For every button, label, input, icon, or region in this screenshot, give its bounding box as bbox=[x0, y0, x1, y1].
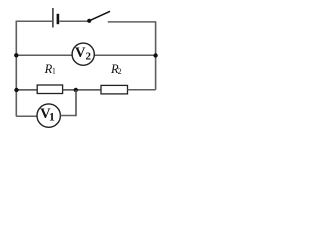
wire R row: left dot to R1 bbox=[17, 89, 38, 91]
wire switch fixed contact to top-right corner bbox=[108, 21, 156, 23]
node junction dot left of V2 row bbox=[14, 53, 18, 57]
node junction dot R row left bbox=[14, 88, 18, 92]
voltmeter V2 bbox=[72, 43, 94, 65]
resistor R2 bbox=[101, 85, 128, 94]
svg-text:1: 1 bbox=[49, 110, 55, 124]
wire V1 loop bottom-left bbox=[16, 115, 37, 117]
svg-text:2: 2 bbox=[85, 50, 91, 62]
node junction dot right of V2 row bbox=[153, 53, 157, 57]
svg-text:2: 2 bbox=[118, 67, 122, 76]
resistor R1 bbox=[37, 85, 62, 94]
wire V2 row right segment bbox=[94, 54, 155, 56]
wire top-left segment (battery left lead) bbox=[16, 20, 52, 22]
wire V2 row left segment bbox=[16, 54, 72, 56]
battery cell bbox=[53, 8, 58, 28]
wire V1 riser up to R row bbox=[75, 90, 77, 116]
voltmeter V1 bbox=[37, 104, 60, 127]
wire R2 to right vertical bbox=[128, 89, 156, 91]
wire left vertical bbox=[15, 21, 17, 117]
svg-text:1: 1 bbox=[52, 67, 56, 76]
wire V1 to right riser bbox=[60, 115, 76, 117]
wire right vertical bbox=[155, 21, 157, 90]
wire R1 to middle node bbox=[63, 89, 101, 91]
node junction dot between R1 and R2 bbox=[74, 88, 78, 92]
wire battery to switch bbox=[60, 20, 90, 22]
switch S (open knife switch) bbox=[87, 11, 110, 23]
svg-text:V: V bbox=[75, 45, 86, 61]
